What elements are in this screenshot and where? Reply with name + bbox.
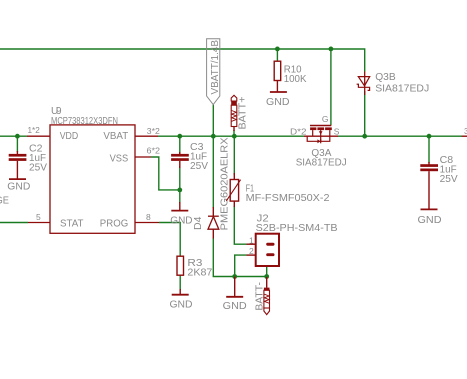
wire F1 to J2 pin 1	[234, 206, 246, 244]
svg-text:3*2: 3*2	[147, 126, 160, 136]
wire J2 shield pin to bottom rail	[266, 266, 268, 277]
svg-text:BATT+: BATT+	[236, 97, 248, 130]
ground bottom rail tap	[226, 277, 243, 297]
svg-text:8: 8	[146, 212, 151, 222]
svg-text:GND: GND	[170, 299, 193, 311]
junction R10 at top rail	[275, 47, 280, 52]
wire C8 drop	[428, 136, 430, 163]
junction Q3A gate at top rail	[329, 47, 334, 52]
svg-text:VSS: VSS	[110, 153, 129, 164]
fuse F1	[226, 173, 240, 207]
ground under C2	[9, 178, 26, 180]
svg-text:25V: 25V	[190, 160, 208, 172]
net flag VBATT/1.4B	[207, 39, 221, 105]
svg-text:SIA817EDJ: SIA817EDJ	[375, 82, 429, 94]
junction C3 at mid rail	[177, 134, 182, 139]
svg-text:5: 5	[36, 212, 41, 222]
wire VBATT label drop through D4 to bottom rail	[212, 105, 214, 208]
capacitor C3	[171, 152, 189, 168]
wire PROG net to R3	[159, 223, 180, 257]
svg-text:100K: 100K	[284, 73, 307, 85]
svg-text:PROG: PROG	[100, 219, 129, 230]
wire BATT+ testpoint stub	[233, 130, 235, 136]
svg-text:G: G	[322, 114, 329, 124]
resistor R10	[274, 61, 281, 80]
svg-text:BATT-: BATT-	[253, 282, 265, 311]
wire top VBATT rail	[0, 49, 365, 72]
ground under R3	[172, 289, 189, 295]
wire mid rail battery net right	[338, 135, 462, 137]
svg-text:VBATT/1.4B: VBATT/1.4B	[210, 40, 221, 95]
diode Q3B SIA817EDJ body diode	[357, 72, 370, 96]
wire C3 bottom to GND	[179, 166, 181, 203]
op IC U9 MCP738312X3DFN box	[27, 125, 159, 233]
junction C2 at mid rail	[15, 134, 20, 139]
svg-text:D4: D4	[192, 216, 204, 230]
svg-text:2K87: 2K87	[187, 267, 212, 279]
svg-text:VDD: VDD	[60, 131, 78, 142]
svg-text:25V: 25V	[440, 173, 458, 185]
ground under C3	[171, 202, 188, 211]
svg-text:1*2: 1*2	[28, 125, 41, 135]
wire C2 drop	[16, 136, 18, 152]
junction VBATT/D4 at mid rail	[211, 134, 216, 139]
wire J2 pin 2 to bottom rail	[235, 255, 247, 276]
ground under R10	[270, 91, 287, 93]
junction BATT- tap bottom rail	[264, 274, 269, 279]
junction Q3B at mid rail	[362, 134, 367, 139]
svg-text:GND: GND	[223, 300, 247, 312]
capacitor C8	[420, 162, 438, 209]
wire mid rail left (VDD net)	[0, 135, 27, 137]
svg-text:S2B-PH-SM4-TB: S2B-PH-SM4-TB	[256, 222, 338, 234]
svg-text:25V: 25V	[29, 161, 47, 173]
transistor Q3A SIA817EDJ pmos	[304, 126, 338, 144]
ground under C8	[421, 208, 438, 210]
wire VSS net	[151, 157, 180, 190]
svg-text:GE: GE	[0, 195, 9, 207]
svg-text:MF-FSMF050X-2: MF-FSMF050X-2	[246, 192, 330, 204]
svg-text:2: 2	[249, 246, 254, 256]
junction BATT+/F1 at mid rail	[232, 134, 237, 139]
testpoint BATT-	[264, 277, 270, 315]
svg-text:GND: GND	[170, 214, 193, 226]
svg-text:D*2: D*2	[290, 127, 307, 137]
wire C3 drop upper	[179, 136, 181, 154]
wire R10 drop	[276, 49, 278, 61]
capacitor C2	[9, 151, 27, 179]
svg-text:STAT: STAT	[60, 219, 83, 230]
wire F1 drop from rail	[233, 136, 235, 175]
svg-text:PMEG6020AELRX: PMEG6020AELRX	[218, 137, 230, 230]
svg-text:Q3B: Q3B	[375, 71, 396, 83]
wire STAT net to left edge	[0, 222, 28, 224]
connector J2 S2B-PH-SM4-TB	[247, 234, 280, 266]
wire R3 bottom to GND	[179, 275, 181, 290]
resistor R3	[177, 256, 184, 275]
wire Q3A gate drop	[330, 49, 332, 125]
svg-text:GND: GND	[7, 181, 30, 193]
svg-text:MCP738312X3DFN: MCP738312X3DFN	[51, 116, 118, 127]
testpoint BATT+	[231, 95, 237, 131]
wire R10 bottom	[276, 81, 278, 92]
junction VSS-C3 node	[177, 188, 182, 193]
junction C8 at mid rail	[427, 134, 432, 139]
wire mid rail VBAT net	[158, 135, 304, 137]
wire D4 anode down to bottom rail corner	[213, 238, 266, 277]
svg-text:SIA817EDJ: SIA817EDJ	[296, 156, 347, 168]
wire Q3B cathode to mid rail	[364, 91, 366, 136]
svg-text:GND: GND	[266, 96, 290, 108]
svg-text:S: S	[334, 127, 340, 137]
svg-text:6*2: 6*2	[147, 146, 161, 156]
diode D4 PMEG6020AELRX	[208, 207, 219, 239]
svg-text:VBAT: VBAT	[103, 131, 128, 142]
svg-text:1: 1	[249, 236, 254, 246]
junction GND tap bottom rail	[232, 274, 237, 279]
pin stub next sheet right edge	[462, 135, 467, 137]
svg-text:GND: GND	[418, 214, 442, 226]
